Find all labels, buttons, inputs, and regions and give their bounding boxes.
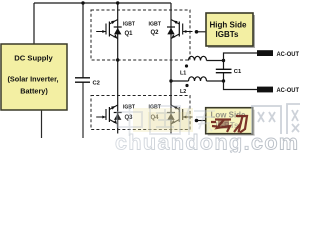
wire top rail (34, 2, 171, 4)
wire C2 top lead (82, 3, 84, 78)
wire DC supply bottom lead (41, 110, 43, 138)
svg-text:C1: C1 (234, 69, 242, 75)
node junction dot C1 bottom (222, 79, 225, 82)
terminal AC-OUT top (257, 50, 273, 56)
wire left leg Q1-Q3 (117, 3, 119, 134)
svg-text:C2: C2 (93, 81, 100, 87)
svg-text:IGBT: IGBT (149, 21, 162, 27)
svg-text:DC Supply: DC Supply (14, 54, 53, 63)
watermark white haze over Low Side box (207, 109, 253, 133)
svg-text:IGBTs: IGBTs (216, 30, 240, 39)
wire AC-OUT bottom (224, 81, 258, 90)
node junction dot C2/top rail (81, 1, 84, 4)
node junction dot right leg midpoint (169, 79, 172, 82)
wire L2 to C1 node (207, 80, 224, 82)
wire right leg midpoint to L2 (171, 80, 189, 82)
watermark character wang (252, 106, 281, 134)
watermark character dong (red) (211, 116, 247, 133)
watermark character chuan (186, 106, 215, 135)
node junction dot left leg midpoint (116, 58, 119, 61)
watermark character zhong (117, 104, 142, 136)
IGBT Q3 (96, 105, 122, 124)
wire L1 to C1 node (207, 60, 224, 62)
terminal AC-OUT bottom (257, 87, 273, 93)
inductor L1 (189, 56, 207, 60)
low-side dashed box (91, 96, 190, 130)
capacitor C1 (216, 61, 232, 82)
wire C2 bottom lead (82, 83, 84, 139)
node junction dot C1 top (222, 59, 225, 62)
DC Supply box (1, 44, 67, 110)
svg-text:(Solar Inverter,: (Solar Inverter, (7, 75, 58, 84)
Low Side IGBTs box (206, 108, 253, 134)
High Side IGBTs box (206, 13, 253, 46)
wire AC-OUT top (224, 53, 258, 61)
High Side callout leader line (197, 31, 207, 33)
svg-text:L1: L1 (180, 71, 186, 77)
high-side dashed box (91, 10, 190, 60)
svg-text:High Side: High Side (210, 21, 248, 30)
node polarity dot L1 (185, 64, 188, 67)
IGBT Q1 (96, 20, 122, 39)
Low Side callout leader dot (195, 119, 199, 123)
node polarity dot L2 (185, 84, 188, 87)
High Side callout leader dot (195, 30, 199, 34)
svg-text:Battery): Battery) (20, 86, 48, 95)
Low Side IGBTs box shadow (208, 110, 255, 136)
wire right leg Q2-Q4 (170, 3, 172, 134)
wire DC supply top lead (33, 3, 35, 45)
svg-text:IGBT: IGBT (123, 21, 135, 27)
IGBT Q4 (167, 105, 193, 124)
svg-text:Q1: Q1 (125, 31, 134, 37)
High Side IGBTs box shadow (208, 15, 255, 48)
svg-text:L2: L2 (180, 89, 186, 95)
capacitor C2 (75, 78, 90, 82)
inductor L2 (189, 77, 207, 81)
watermark character guo (150, 106, 180, 134)
svg-text:AC-OUT: AC-OUT (277, 52, 300, 58)
Low Side callout leader line (197, 120, 206, 122)
svg-text:AC-OUT: AC-OUT (277, 88, 300, 94)
watermark tint band (133, 108, 193, 132)
svg-text:chuandong.com: chuandong.com (115, 131, 298, 154)
node junction dot Q1/top rail (116, 1, 119, 4)
watermark partial character (287, 104, 300, 134)
IGBT Q2 (167, 20, 193, 39)
svg-text:Q2: Q2 (151, 30, 160, 36)
